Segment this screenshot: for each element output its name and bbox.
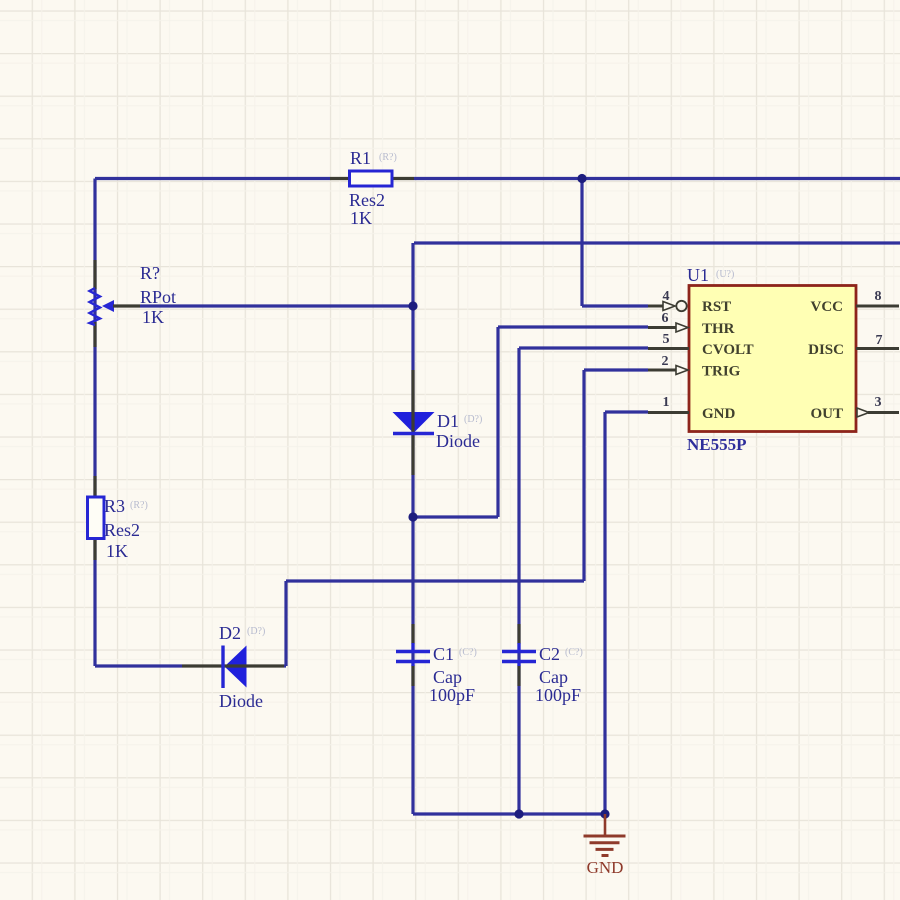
pin 2 TRIG line [648,369,676,372]
svg-text:(C?): (C?) [459,647,477,658]
svg-text:100pF: 100pF [535,685,581,705]
svg-text:6: 6 [662,311,669,326]
wire center vertical x413 [411,243,414,814]
capacitor C2 pins [517,624,520,686]
wire GND net vertical x605 [603,412,606,814]
diode D2 cathode bar [221,646,224,689]
wire top rail left segment [95,177,330,180]
capacitor C1 plate stubs [411,643,414,666]
diode D2 pins [182,664,284,667]
wire D2 right to corner [284,664,286,667]
junction dot GND [600,809,609,818]
svg-text:5: 5 [663,332,670,347]
wire TRIG net vertical x286 [284,581,287,666]
wire TRIG net horizontal y581 [286,579,584,582]
pin 4 RST bubble [676,301,686,311]
svg-text:(D?): (D?) [247,626,265,637]
pin 2 TRIG direction glyph [676,366,688,375]
svg-text:GND: GND [587,858,624,877]
svg-text:R1: R1 [350,148,371,168]
diode D1 cathode bar [393,432,434,435]
wire second rail y243 [414,241,900,244]
svg-text:R3: R3 [104,496,125,516]
capacitor C1 pins [411,624,414,686]
potentiometer R? zigzag [90,288,101,325]
wire THR net horizontal y327 [498,325,648,328]
pin 6 THR line [648,326,676,329]
op-amp U1 body [689,286,856,432]
svg-text:(C?): (C?) [565,647,583,658]
pin 1 GND line [648,411,689,414]
pin 3 OUT line [868,411,899,414]
pin 6 THR direction glyph [676,323,688,332]
junction dot wiper [408,301,417,310]
svg-text:CVOLT: CVOLT [702,342,754,358]
svg-text:(R?): (R?) [130,500,148,511]
svg-text:U1: U1 [687,265,709,285]
svg-text:3: 3 [875,395,882,410]
svg-text:THR: THR [702,321,735,337]
pin 5 CVOLT line [648,347,689,350]
svg-text:1K: 1K [106,541,128,561]
svg-text:R?: R? [140,263,160,283]
svg-text:RST: RST [702,299,731,315]
svg-text:VCC: VCC [811,299,844,315]
wire D2 horizontal y666 [95,664,182,667]
wire TRIG net horizontal y370 [584,368,648,371]
svg-text:Diode: Diode [436,431,480,451]
svg-text:7: 7 [876,333,883,348]
diode D1 triangle [393,412,435,433]
capacitor C1 plates [396,652,430,662]
junction dot C2 bottom [514,809,523,818]
pin 8 VCC line [856,305,899,308]
potentiometer R? wiper pin [113,304,140,307]
diode D2 triangle [225,646,247,688]
pin 3 OUT direction glyph [857,408,869,417]
svg-text:GND: GND [702,406,736,422]
svg-text:C1: C1 [433,644,454,664]
wire left vertical [93,179,96,667]
potentiometer R? pins [93,260,96,347]
potentiometer R? wiper arrow [102,300,114,312]
svg-text:Cap: Cap [539,667,568,687]
svg-text:RPot: RPot [140,287,176,307]
wire RST net vertical [580,179,583,307]
svg-text:D2: D2 [219,623,241,643]
wire TRIG net vertical x584 [582,370,585,581]
wire THR net horizontal y517 [413,515,498,518]
ground bars [584,836,626,856]
svg-text:2: 2 [662,354,669,369]
pin 7 DISC line [856,347,899,350]
capacitor C2 plate stubs [517,643,520,666]
svg-text:(D?): (D?) [464,414,482,425]
svg-text:Diode: Diode [219,691,263,711]
svg-text:C2: C2 [539,644,560,664]
wire bottom rail y814 [413,812,605,815]
svg-text:DISC: DISC [808,342,844,358]
svg-text:Res2: Res2 [104,520,140,540]
wire RST net horizontal [582,304,648,307]
svg-text:Cap: Cap [433,667,462,687]
svg-text:4: 4 [663,289,670,304]
wire pot wiper horizontal [140,304,413,307]
junction dot THR [408,512,417,521]
resistor R1 [350,171,393,186]
resistor R3 [88,497,105,539]
wire GND net horizontal y412 [605,410,648,413]
svg-text:8: 8 [875,289,882,304]
svg-text:(U?): (U?) [716,269,734,280]
wire THR net vertical x498 [496,327,499,517]
diode D1 pins [411,370,414,475]
junction dot top rail [577,174,586,183]
svg-text:OUT: OUT [810,406,843,422]
pin 4 RST line [648,305,663,308]
svg-text:NE555P: NE555P [687,435,747,454]
svg-text:100pF: 100pF [429,685,475,705]
svg-text:D1: D1 [437,411,459,431]
wire top rail right segment [414,177,900,180]
ground stub [604,814,607,836]
wire CVOLT net vertical x519 [517,348,520,814]
svg-text:1K: 1K [350,208,372,228]
capacitor C2 plates [502,652,536,662]
resistor R3 pins [93,476,96,560]
svg-text:1K: 1K [142,307,164,327]
wire CVOLT net horizontal y348 [519,346,648,349]
svg-text:1: 1 [663,395,670,410]
pin 4 RST direction glyph [663,302,675,311]
svg-text:TRIG: TRIG [702,364,741,380]
svg-text:Res2: Res2 [349,190,385,210]
resistor R1 pins [330,177,414,180]
svg-text:(R?): (R?) [379,152,397,163]
